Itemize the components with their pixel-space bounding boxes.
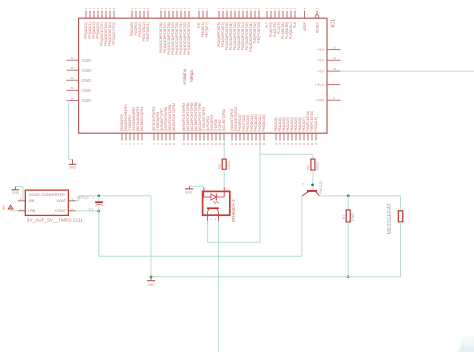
svg-text:+5V: +5V (317, 47, 325, 52)
svg-text:59: 59 (242, 8, 245, 10)
svg-text:40: 40 (290, 8, 293, 10)
svg-text:C1: C1 (89, 207, 93, 211)
U2 pin stubs (18, 197, 76, 211)
svg-text:66: 66 (254, 8, 257, 10)
decorative corner artifact (458, 336, 474, 357)
svg-text:+5V: +5V (317, 58, 325, 63)
wire branch to base resistor R4 (260, 153, 313, 155)
svg-text:GND: GND (82, 78, 92, 83)
svg-text:84: 84 (180, 8, 183, 10)
svg-text:57: 57 (234, 8, 237, 10)
svg-text:2: 2 (20, 197, 22, 201)
svg-text:77: 77 (279, 144, 282, 146)
wire R4 bottom to Q1 base (312, 170, 314, 190)
svg-text:74: 74 (291, 144, 294, 146)
svg-text:DC/DC CONVERTER: DC/DC CONVERTER (29, 193, 65, 197)
junction Q1 base (311, 183, 314, 186)
svg-text:+VIN: +VIN (28, 209, 36, 213)
wire jog to ground pin (69, 158, 73, 160)
svg-text:32: 32 (71, 66, 75, 70)
svg-text:PF7(ADC7/TDI): PF7(ADC7/TDI) (112, 22, 116, 45)
svg-text:72: 72 (299, 144, 302, 146)
IC1 bottom pins PA0-PA7 PJ5 PJ6 PG2 (274, 111, 318, 146)
svg-text:69: 69 (311, 144, 314, 146)
svg-text:AREF: AREF (303, 22, 307, 31)
svg-text:(SCL/INT0)PD0: (SCL/INT0)PD0 (222, 109, 226, 132)
IC1 pin RESET (inverted) (315, 8, 319, 33)
wire down to bottom junction (150, 196, 152, 277)
wire opto emitter loop (208, 221, 260, 242)
svg-text:83: 83 (184, 8, 187, 10)
IC1 bottom pins PD7 PD0 (218, 109, 226, 146)
svg-text:PG4(TOSC1): PG4(TOSC1) (146, 22, 150, 41)
wire -VOUT to cap top rail (76, 196, 151, 201)
svg-text:53: 53 (218, 8, 221, 10)
svg-text:R5: R5 (218, 164, 222, 169)
IC1 left pins GND x5 (67, 56, 92, 103)
svg-text:R4: R4 (307, 165, 311, 170)
wire R4 top lead (312, 154, 314, 159)
svg-text:81: 81 (71, 86, 75, 90)
svg-text:68: 68 (307, 144, 310, 146)
svg-text:35: 35 (270, 8, 273, 10)
svg-text:88: 88 (164, 8, 167, 10)
wire C1 bottom down (98, 211, 100, 256)
Arduino Mega value label (182, 68, 194, 84)
wire measuring device bottom lead (400, 222, 402, 277)
IC U1 Arduino Mega body (79, 18, 327, 133)
svg-text:26: 26 (199, 144, 202, 146)
svg-text:87: 87 (168, 8, 171, 10)
svg-text:T1: T1 (301, 182, 305, 186)
svg-text:PK7(ADC15/PCINT23): PK7(ADC15/PCINT23) (187, 22, 191, 54)
svg-text:6: 6 (141, 144, 143, 146)
svg-text:85: 85 (176, 8, 179, 10)
svg-text:75: 75 (287, 144, 290, 146)
junction collector node (347, 195, 350, 198)
wire opto collector down off page (218, 221, 220, 352)
wire +5V net to right edge (340, 70, 474, 72)
IC1 top pins PC0-PC7 PJ2-PJ4 (217, 8, 261, 52)
svg-text:39: 39 (286, 8, 289, 10)
IC1 bottom pins PD1 PD2 PH0-PH6 (230, 107, 266, 146)
svg-text:19: 19 (147, 8, 150, 10)
svg-text:PJ4(PCINT13): PJ4(PCINT13) (257, 22, 261, 43)
svg-text:9: 9 (206, 8, 208, 10)
wire -VIN to ground (15, 187, 23, 201)
wire IC pin PH4 down to opto emitter loop (259, 141, 261, 243)
svg-text:60: 60 (246, 8, 249, 10)
svg-text:+3V3: +3V3 (315, 82, 325, 87)
IC1 top pins PL0-PL7 (265, 8, 297, 39)
IC1 right pins +5V +3V3 +VIN (315, 46, 341, 103)
svg-text:37: 37 (278, 8, 281, 10)
svg-text:4: 4 (71, 207, 73, 211)
svg-text:GND: GND (82, 98, 92, 103)
svg-text:PH6(OC2B): PH6(OC2B) (262, 114, 266, 131)
svg-text:92: 92 (105, 8, 108, 10)
resistor R7 (342, 210, 355, 222)
svg-text:62: 62 (71, 76, 75, 80)
svg-text:+: + (93, 197, 96, 201)
svg-text:61: 61 (333, 67, 337, 71)
svg-text:8: 8 (333, 96, 335, 100)
IC1 top pins PK0-PK7 (159, 8, 191, 55)
svg-text:PG2(ALE): PG2(ALE) (314, 117, 318, 132)
svg-text:70: 70 (315, 144, 318, 146)
svg-text:97: 97 (85, 8, 88, 10)
svg-text:49: 49 (215, 144, 218, 146)
svg-text:96: 96 (89, 8, 92, 10)
svg-text:16: 16 (255, 144, 258, 146)
svg-text:42: 42 (266, 8, 269, 10)
svg-text:94: 94 (97, 8, 100, 10)
svg-text:7: 7 (153, 144, 155, 146)
IC1 bottom pins PB3-PB7 PD3-PD6 (182, 102, 218, 146)
svg-text:67: 67 (258, 8, 261, 10)
svg-text:RESET: RESET (315, 22, 319, 33)
svg-text:98: 98 (303, 8, 306, 10)
ground below IC1 left (69, 159, 77, 169)
svg-text:22: 22 (183, 144, 186, 146)
junction C1 bottom (97, 210, 100, 213)
svg-text:+5V: +5V (317, 69, 325, 74)
svg-text:50: 50 (219, 144, 222, 146)
svg-text:PL6: PL6 (293, 22, 297, 28)
svg-text:2: 2 (125, 144, 127, 146)
svg-text:76: 76 (283, 144, 286, 146)
junction bottom rail / ground tap (150, 275, 153, 278)
svg-text:220Ω: 220Ω (227, 161, 231, 170)
svg-text:90: 90 (113, 8, 116, 10)
wire measuring device top lead (400, 196, 402, 211)
svg-text:13: 13 (243, 144, 246, 146)
svg-text:52: 52 (135, 8, 138, 10)
svg-text:56: 56 (230, 8, 233, 10)
svg-text:+VOUT: +VOUT (55, 209, 66, 213)
svg-text:51: 51 (131, 8, 134, 10)
svg-text:GND: GND (147, 283, 155, 287)
junction R7 bottom (347, 275, 350, 278)
svg-text:10kΩ: 10kΩ (351, 213, 355, 222)
svg-text:1: 1 (20, 207, 22, 211)
svg-text:1: 1 (200, 188, 202, 192)
wire Q1 emitter down (301, 196, 303, 256)
resistor MESSGERÄT (measuring device) (386, 203, 403, 234)
svg-text:48: 48 (211, 144, 214, 146)
svg-text:12: 12 (239, 144, 242, 146)
resistor R5 220Ω (218, 159, 231, 170)
svg-text:3: 3 (214, 217, 216, 221)
svg-text:73: 73 (295, 144, 298, 146)
svg-text:GND: GND (82, 58, 92, 63)
capacitor C1 polarized (89, 197, 103, 212)
svg-text:GND: GND (82, 88, 92, 93)
svg-text:7: 7 (333, 81, 335, 85)
svg-text:18: 18 (143, 8, 146, 10)
svg-text:Mega: Mega (189, 70, 194, 82)
svg-text:4: 4 (210, 217, 212, 221)
svg-text:-VIN: -VIN (28, 199, 35, 203)
svg-text:10kΩ: 10kΩ (316, 162, 320, 171)
IC1 top pins PJ7 PE6 PE7 (197, 8, 209, 37)
wire GND pin 99 down to ground (68, 101, 70, 160)
IC1 top pins PG0-PG4 (130, 8, 150, 41)
svg-text:79: 79 (198, 8, 201, 10)
wire R7 top lead (347, 196, 349, 210)
svg-text:+VIN: +VIN (315, 98, 324, 103)
svg-text:MESSGERÄT: MESSGERÄT (386, 203, 393, 234)
svg-text:Arduino: Arduino (182, 68, 187, 84)
svg-text:5: 5 (137, 144, 139, 146)
svg-text:1: 1 (121, 144, 123, 146)
svg-text:45: 45 (235, 144, 238, 146)
svg-text:54: 54 (222, 8, 225, 10)
svg-text:GND: GND (82, 68, 92, 73)
svg-text:36: 36 (274, 8, 277, 10)
svg-text:9: 9 (161, 144, 163, 146)
svg-text:10: 10 (333, 46, 337, 50)
svg-text:55: 55 (226, 8, 229, 10)
svg-text:SFH620A-2: SFH620A-2 (231, 199, 236, 222)
C1 leads (98, 196, 100, 211)
svg-text:18: 18 (263, 144, 266, 146)
svg-text:65: 65 (250, 8, 253, 10)
svg-text:PE7(INT7): PE7(INT7) (205, 22, 209, 37)
svg-text:21: 21 (173, 144, 176, 146)
wire R7 bottom lead (347, 222, 349, 277)
svg-text:GND: GND (185, 190, 193, 194)
svg-text:11: 11 (71, 56, 74, 60)
svg-text:82: 82 (188, 8, 191, 10)
svg-text:31: 31 (333, 56, 337, 60)
svg-text:(MOSI/PCINT2)PB2: (MOSI/PCINT2)PB2 (172, 103, 176, 132)
svg-text:3: 3 (129, 144, 131, 146)
svg-text:47: 47 (207, 144, 210, 146)
supply symbol 3V (2, 205, 13, 210)
svg-text:8: 8 (157, 144, 159, 146)
wire opto cathode pin to ground (190, 186, 204, 187)
svg-text:99: 99 (71, 96, 75, 100)
wire IC pin PD0 down to R5 (223, 141, 225, 160)
IC1 top pins PF0-PF7 (84, 8, 116, 46)
svg-text:4: 4 (133, 144, 135, 146)
svg-text:8: 8 (202, 8, 204, 10)
svg-text:78: 78 (275, 144, 278, 146)
svg-text:46: 46 (203, 144, 206, 146)
IC1 bottom pins PE5-PE7 PB0-PB2 (152, 103, 176, 146)
svg-text:44: 44 (231, 144, 234, 146)
IC1 bottom pins PG5 PE0-PE4 (120, 104, 144, 146)
svg-text:95: 95 (93, 8, 96, 10)
svg-text:14: 14 (247, 144, 250, 146)
svg-text:58: 58 (238, 8, 241, 10)
svg-text:41: 41 (294, 8, 297, 10)
svg-text:GND: GND (12, 191, 20, 195)
svg-text:GND: GND (69, 166, 77, 170)
svg-text:20: 20 (169, 144, 172, 146)
svg-text:70: 70 (139, 8, 142, 10)
svg-text:IC1: IC1 (331, 19, 337, 28)
IC1 pin AREF (303, 8, 307, 31)
svg-text:89: 89 (160, 8, 163, 10)
svg-text:2200 µF: 2200 µF (77, 196, 90, 200)
svg-text:-VOUT: -VOUT (55, 199, 66, 203)
svg-text:(OC3B/INT4)PE4: (OC3B/INT4)PE4 (140, 107, 144, 132)
wire bottom rail (151, 276, 401, 278)
ground at U2 input (11, 187, 19, 196)
svg-text:91: 91 (109, 8, 112, 10)
svg-text:71: 71 (303, 144, 306, 146)
svg-text:3: 3 (71, 197, 73, 201)
wire mid rail emitter to C1 (99, 255, 302, 257)
wire R5 bottom to opto anode (223, 169, 225, 187)
resistor R4 (307, 159, 320, 171)
svg-text:25: 25 (195, 144, 198, 146)
svg-text:23: 23 (187, 144, 190, 146)
svg-text:30: 30 (316, 8, 319, 10)
svg-text:15: 15 (251, 144, 254, 146)
svg-text:24: 24 (191, 144, 194, 146)
wire Q1 collector to node (320, 195, 401, 197)
junction C1 top (97, 194, 100, 197)
svg-text:PN2222: PN2222 (319, 181, 323, 194)
svg-text:3V_AUF_5V__TMR3-1211: 3V_AUF_5V__TMR3-1211 (27, 217, 84, 222)
svg-text:93: 93 (101, 8, 104, 10)
svg-text:38: 38 (282, 8, 285, 10)
transistor Q1 PN2222 (301, 181, 323, 196)
ground bottom center (147, 277, 155, 287)
svg-text:19: 19 (165, 144, 168, 146)
svg-text:86: 86 (172, 8, 175, 10)
optocoupler OK1 SFH620A (200, 188, 236, 223)
ground at opto input (185, 186, 193, 194)
DC/DC converter U2 body (25, 190, 68, 215)
svg-text:R7: R7 (342, 215, 346, 220)
wire 3V supply to +VIN (11, 209, 19, 211)
svg-text:3V: 3V (2, 205, 6, 210)
wire +VOUT to cap bottom (76, 210, 99, 212)
